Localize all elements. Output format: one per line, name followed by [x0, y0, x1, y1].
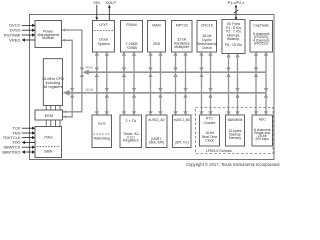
- svg-text:SBW: SBW: [44, 150, 53, 154]
- svg-text:JTAG: JTAG: [44, 135, 53, 139]
- wire: MAB tap column for CapTIvate/ADC: [254, 52, 258, 115]
- svg-text:Clock: Clock: [99, 38, 108, 42]
- wire: CPU to EEM connectors: [46, 106, 60, 111]
- wire: MDB tap column for LFXT/SYS: [105, 52, 109, 115]
- svg-text:+256B: +256B: [126, 46, 137, 50]
- power management module (PMM): [35, 21, 62, 48]
- svg-text:PA : 15 IOs: PA : 15 IOs: [225, 43, 242, 47]
- RTC counter block: [200, 115, 220, 146]
- svg-text:(SPI, I²C): (SPI, I²C): [175, 140, 189, 144]
- RAM block: [148, 21, 166, 53]
- svg-text:EEM: EEM: [45, 114, 53, 118]
- eUSCI_A0 block: [146, 115, 167, 148]
- wire: MDB tap column for FRAM/TA: [132, 52, 136, 115]
- svg-text:16 registers: 16 registers: [43, 85, 62, 89]
- svg-text:2 × TA: 2 × TA: [125, 119, 136, 123]
- MPY32 multiplier block: [172, 21, 193, 53]
- pin TMS: [12, 130, 35, 135]
- svg-text:IrDA, SPI): IrDA, SPI): [149, 140, 164, 144]
- svg-text:Counter: Counter: [203, 121, 216, 125]
- svg-text:RAM: RAM: [152, 23, 160, 27]
- svg-text:XIN: XIN: [93, 0, 100, 5]
- svg-text:Memory: Memory: [229, 136, 242, 140]
- wire: MAB tap column for LFXT/SYS: [95, 52, 99, 115]
- svg-text:MDB: MDB: [85, 88, 93, 92]
- wire: MDB tap column for CRC16/RTC: [208, 52, 212, 115]
- wire: MAB tap column for CRC16/RTC: [199, 52, 203, 115]
- svg-text:Copyright © 2017, Texas Instru: Copyright © 2017, Texas Instruments Inco…: [186, 162, 280, 167]
- CRC16 block: [196, 21, 217, 53]
- FRAM memory block: [121, 21, 143, 53]
- ADC block: [252, 115, 273, 146]
- wire: MAB tap to PMM and EEM (x=81.9): [62, 28, 84, 113]
- LPM3.5 domain dashed boundary: [196, 107, 273, 153]
- svg-text:System: System: [97, 42, 109, 46]
- svg-text:MPY32: MPY32: [176, 23, 188, 27]
- wire: MAB tap column for MPY32/eUSCI_B0: [173, 52, 177, 115]
- svg-text:eUSCI_A0: eUSCI_A0: [148, 118, 164, 122]
- svg-text:Check: Check: [202, 46, 213, 50]
- svg-text:2KB: 2KB: [153, 42, 161, 46]
- JTAG / SBW interface block: [35, 127, 62, 158]
- pin VREG: [9, 37, 35, 42]
- svg-text:FRAM: FRAM: [126, 23, 136, 27]
- bus MAB (memory address bus) with left arrowhead: [82, 66, 266, 75]
- svg-text:200 ksps: 200 ksps: [255, 137, 269, 141]
- pin XIN: [93, 0, 100, 20]
- svg-text:CRC16: CRC16: [201, 23, 213, 27]
- timer TA block: [120, 115, 142, 148]
- pin TDI/TCLK: [3, 135, 35, 140]
- clock system block (LFXT): [93, 21, 115, 53]
- BAKMEM backup memory block: [226, 115, 245, 146]
- pin P1.x/P2.x (bidirectional port bus with slash): [228, 0, 245, 20]
- svg-text:Wakeup,: Wakeup,: [227, 37, 240, 41]
- svg-text:SYS: SYS: [98, 122, 106, 126]
- EEM debug block: [35, 110, 63, 120]
- svg-text:(FR2512): (FR2512): [254, 42, 268, 46]
- svg-text:Multiplier: Multiplier: [174, 45, 190, 49]
- svg-text:Registers: Registers: [123, 139, 139, 143]
- svg-text:LPM3.5 Domain: LPM3.5 Domain: [206, 149, 232, 153]
- svg-text:LFXT: LFXT: [99, 23, 109, 27]
- pin SBWTDIO: [2, 149, 35, 154]
- svg-text:MAB: MAB: [85, 66, 93, 70]
- svg-text:BAKMEM: BAKMEM: [228, 118, 243, 122]
- wire: MAB tap column for IO/BAKMEM: [226, 54, 230, 116]
- wire: MDB tap column for RAM/eUSCI_A0: [158, 52, 162, 115]
- svg-text:Clock: Clock: [205, 139, 214, 143]
- pin RST/NMI: [4, 32, 35, 37]
- wire: MDB tap to PMM and EEM (x=72.2): [62, 39, 74, 119]
- pin TDO: [12, 140, 35, 145]
- svg-text:eUSCI_B0: eUSCI_B0: [174, 118, 190, 122]
- CPU core block: [42, 59, 64, 106]
- eUSCI_B0 block: [173, 115, 192, 148]
- bus MDB (memory data bus) with left arrowhead into CPU: [63, 88, 266, 96]
- svg-text:P1.x/P2.x: P1.x/P2.x: [228, 0, 245, 5]
- svg-text:Watchdog: Watchdog: [94, 136, 110, 140]
- wire: EEM to JTAG connectors: [46, 120, 60, 127]
- I/O ports block P1/P2: [222, 20, 245, 54]
- svg-text:SBWTDIO: SBWTDIO: [2, 149, 21, 154]
- pin DVSS: [10, 28, 36, 33]
- wire: MDB tap column for MPY32/eUSCI_B0: [183, 52, 187, 115]
- svg-text:CapTIvate: CapTIvate: [253, 23, 269, 27]
- wire: MDB tap column for IO/BAKMEM: [235, 54, 239, 116]
- CapTIvate touch block: [250, 21, 273, 53]
- wire: MDB tap column for CapTIvate/ADC: [264, 52, 268, 115]
- svg-text:ADC: ADC: [259, 117, 267, 121]
- svg-text:VREG: VREG: [9, 37, 20, 42]
- pin SBWTCK: [3, 145, 35, 150]
- wire: MAB tap column for RAM/eUSCI_A0: [148, 52, 152, 115]
- SYS / watchdog block: [92, 115, 112, 148]
- pin DVCC: [9, 23, 35, 28]
- pin TCK: [13, 126, 36, 131]
- outer MCU boundary box: [30, 15, 275, 160]
- wire: MAB tap column for FRAM/TA: [122, 52, 126, 115]
- svg-text:XOUT: XOUT: [105, 0, 116, 5]
- svg-text:Module: Module: [42, 36, 54, 40]
- pin XOUT: [105, 0, 116, 20]
